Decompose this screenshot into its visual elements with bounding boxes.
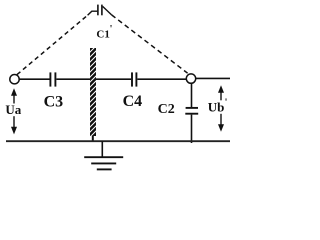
voltage arrow Ub' down bbox=[218, 114, 224, 132]
svg-text:C2: C2 bbox=[158, 102, 175, 117]
capacitor C1' bbox=[98, 5, 102, 16]
wire dashed left diagonal (node A to C1') bbox=[17, 15, 88, 75]
wire C1' left lead bbox=[88, 11, 98, 15]
wire node B down to C2 bbox=[191, 83, 193, 107]
svg-text:': ' bbox=[110, 24, 113, 35]
shield electrode bar (hatched) bbox=[88, 44, 98, 139]
capacitor C2 bbox=[185, 108, 198, 114]
ground bbox=[84, 141, 123, 169]
wire node A to C3 bbox=[19, 78, 49, 80]
node A (left terminal) bbox=[10, 75, 19, 84]
wire node B to right edge bbox=[196, 77, 230, 79]
ground rail wire bbox=[6, 140, 230, 142]
node B (right terminal) bbox=[186, 74, 195, 83]
svg-text:': ' bbox=[225, 98, 228, 109]
voltage arrow Ua down bbox=[11, 116, 17, 134]
wire C3 to shield bar bbox=[56, 78, 90, 80]
wire dashed right diagonal (C1' to node B) bbox=[112, 15, 188, 73]
capacitor C3 bbox=[50, 72, 55, 86]
wire C1' right lead bbox=[103, 6, 112, 15]
wire C2 to ground rail bbox=[191, 115, 193, 143]
voltage arrow Ua up bbox=[11, 88, 17, 103]
svg-text:C3: C3 bbox=[44, 93, 64, 110]
voltage arrow Ub' up bbox=[218, 85, 224, 100]
svg-text:C4: C4 bbox=[123, 93, 143, 110]
svg-text:C1: C1 bbox=[96, 28, 109, 40]
wire C4 to node B bbox=[137, 78, 186, 80]
capacitor C4 bbox=[132, 72, 136, 86]
label Ub' bbox=[208, 98, 228, 115]
svg-text:Ub: Ub bbox=[208, 99, 225, 114]
wire shield bar to ground rail bbox=[92, 136, 94, 143]
value label C1' bbox=[96, 24, 112, 40]
wire shield bar to C4 bbox=[96, 78, 131, 80]
svg-text:Ua: Ua bbox=[5, 102, 21, 117]
